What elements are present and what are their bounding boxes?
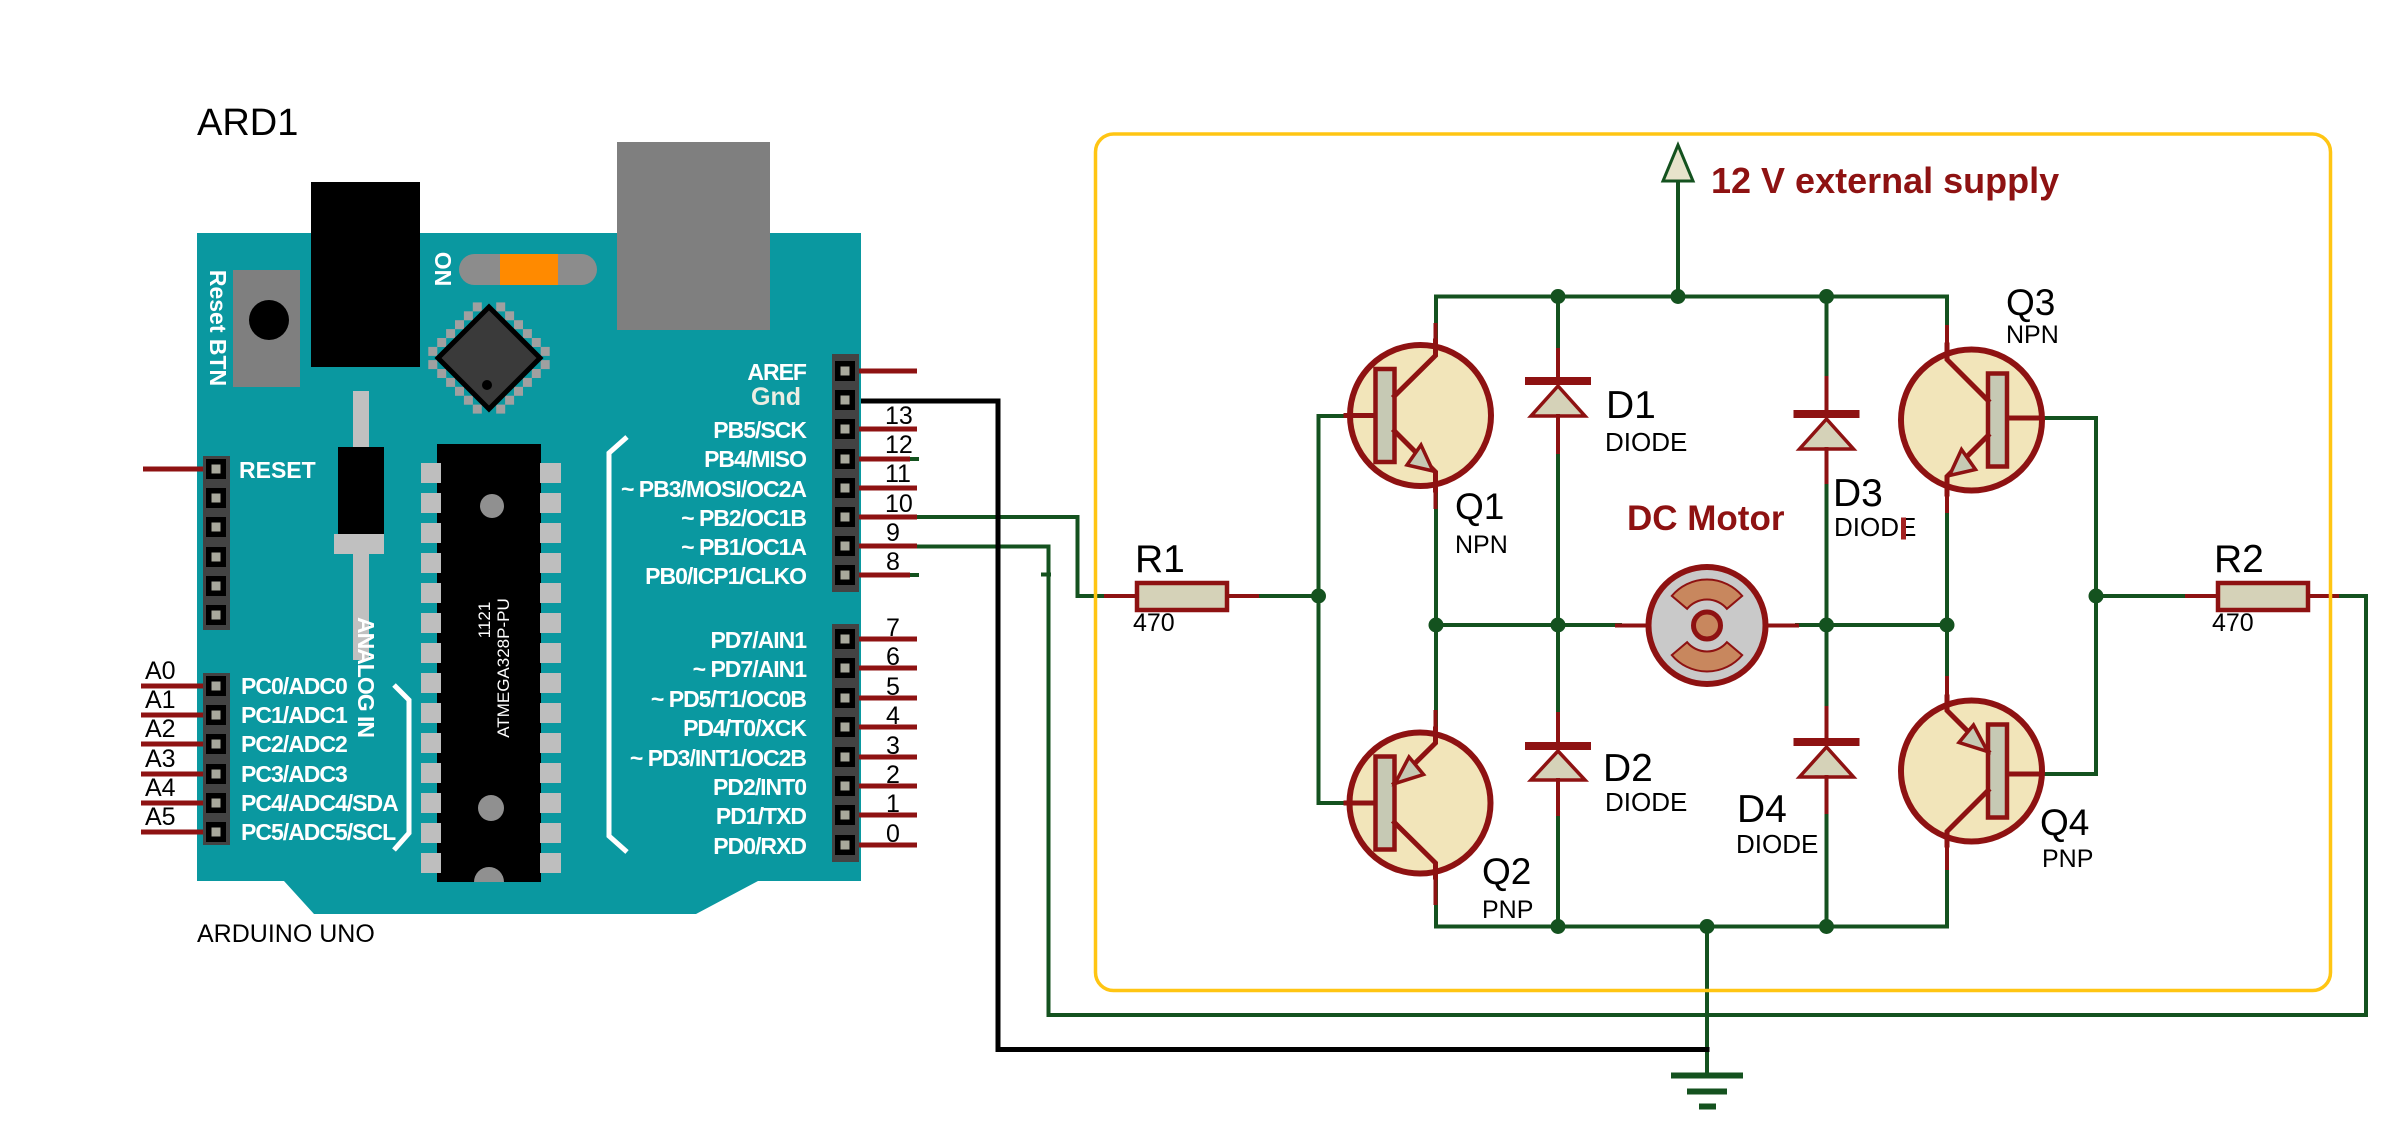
right pin name labels: [621, 359, 807, 859]
wire: D2 column: [1556, 625, 1560, 716]
svg-text:8: 8: [886, 548, 900, 576]
svg-text:0: 0: [886, 820, 900, 848]
resistor R1: [1106, 538, 1257, 637]
digital pin numbers: [885, 402, 913, 848]
RESET pin stub: [143, 467, 203, 472]
svg-text:13: 13: [885, 402, 913, 430]
USB connector: [617, 142, 770, 330]
wire: Q2 emitter to bottom row: [1436, 842, 1947, 927]
power LED: [459, 254, 597, 285]
diode D2: [1529, 714, 1687, 817]
svg-text:~ PD7/AIN1: ~ PD7/AIN1: [693, 656, 808, 682]
diode D4: [1736, 708, 1856, 859]
transistor Q4 PNP: [1901, 678, 2093, 873]
wire: node row to Q2 collector: [1434, 625, 1438, 730]
svg-text:10: 10: [885, 490, 913, 518]
svg-text:Q1: Q1: [1455, 486, 1504, 527]
svg-text:D2: D2: [1603, 747, 1653, 790]
node labels A0-A5: [145, 657, 176, 831]
svg-text:Reset BTN: Reset BTN: [205, 270, 231, 386]
svg-text:PC3/ADC3: PC3/ADC3: [241, 761, 347, 787]
svg-text:5: 5: [886, 673, 900, 701]
svg-text:A3: A3: [145, 745, 176, 773]
svg-text:PD4/T0/XCK: PD4/T0/XCK: [683, 715, 807, 741]
svg-text:~ PD5/T1/OC0B: ~ PD5/T1/OC0B: [651, 686, 806, 712]
DC motor: [1617, 499, 1797, 684]
svg-text:RESET: RESET: [239, 457, 316, 483]
wire: Q3 emitter to node row: [1945, 493, 1949, 625]
digital pin stubs: [859, 371, 917, 845]
svg-text:Q4: Q4: [2040, 802, 2089, 843]
svg-text:ATMEGA328P-PU: ATMEGA328P-PU: [494, 598, 513, 738]
svg-text:ARD1: ARD1: [197, 102, 298, 144]
svg-text:Q2: Q2: [1482, 851, 1531, 892]
svg-text:Gnd: Gnd: [751, 383, 801, 411]
svg-text:~ PB3/MOSI/OC2A: ~ PB3/MOSI/OC2A: [621, 476, 806, 502]
analog pin stubs A0-A5: [141, 686, 203, 832]
svg-text:PC0/ADC0: PC0/ADC0: [241, 673, 347, 699]
svg-text:PD2/INT0: PD2/INT0: [713, 774, 806, 800]
svg-text:ARDUINO UNO: ARDUINO UNO: [197, 920, 375, 948]
svg-text:A5: A5: [145, 803, 176, 831]
svg-text:D3: D3: [1833, 472, 1883, 515]
wire: D4 column: [1825, 625, 1829, 710]
svg-text:PNP: PNP: [1482, 896, 1533, 924]
power jack: [311, 182, 420, 367]
svg-text:A4: A4: [145, 774, 176, 802]
svg-text:PC1/ADC1: PC1/ADC1: [241, 702, 348, 728]
wire: top supply bus: [1436, 297, 1947, 348]
transistor Q2 PNP: [1346, 712, 1533, 924]
svg-text:PC5/ADC5/SCL: PC5/ADC5/SCL: [241, 819, 396, 845]
wire: Q4 base to R2 node: [2040, 596, 2096, 774]
ground symbol: [1674, 1076, 1740, 1107]
svg-text:D1: D1: [1606, 384, 1656, 427]
labels PC0-PC5: [241, 673, 398, 845]
svg-text:Q3: Q3: [2006, 282, 2055, 323]
digital header AREF-8: [832, 354, 859, 592]
svg-text:DC Motor: DC Motor: [1627, 499, 1785, 538]
svg-text:470: 470: [1133, 609, 1175, 637]
svg-text:PD7/AIN1: PD7/AIN1: [710, 627, 807, 653]
DIP chip ATMEGA328P: [421, 444, 561, 882]
diode D1: [1529, 350, 1687, 457]
svg-text:NPN: NPN: [2006, 321, 2059, 349]
svg-text:PD1/TXD: PD1/TXD: [716, 803, 807, 829]
green wire remnant ticks: [910, 457, 919, 461]
svg-text:AREF: AREF: [747, 359, 807, 385]
white bracket analog group: [394, 685, 409, 850]
white bracket PB/PD group: [609, 437, 627, 852]
wire: base rail Q1-Q2: [1319, 416, 1356, 803]
wire: ground drop: [1705, 927, 1709, 1074]
svg-text:11: 11: [885, 460, 911, 488]
wire: Q3 base to R2 node: [2040, 418, 2190, 596]
wire: D3 column: [1825, 297, 1829, 381]
svg-text:9: 9: [886, 519, 900, 547]
svg-text:2: 2: [886, 761, 900, 789]
svg-text:NPN: NPN: [1455, 531, 1508, 559]
svg-text:~ PB1/OC1A: ~ PB1/OC1A: [681, 534, 806, 560]
board outline: [197, 233, 861, 914]
wire: pin9 long wire to R2: [917, 547, 2366, 1016]
yellow highlight frame: [1096, 134, 2331, 991]
svg-text:DIODE: DIODE: [1736, 829, 1818, 859]
svg-text:3: 3: [886, 732, 900, 760]
diode D3: [1798, 378, 1917, 542]
power flag 12V: [1663, 145, 1693, 297]
wire: motor right to Q3Q4 rail: [1797, 623, 1947, 627]
svg-text:PC2/ADC2: PC2/ADC2: [241, 731, 347, 757]
svg-text:12 V external supply: 12 V external supply: [1711, 160, 2059, 201]
svg-text:7: 7: [886, 614, 900, 642]
resistor R2: [2187, 538, 2337, 637]
wire: black ground wire from Arduino: [858, 401, 1707, 1050]
wire: node row to Q4 collector: [1945, 625, 1949, 698]
svg-text:~ PD3/INT1/OC2B: ~ PD3/INT1/OC2B: [630, 745, 806, 771]
transistor Q3 NPN: [1901, 282, 2059, 511]
wire: R1 to bases node: [1251, 594, 1319, 598]
svg-text:PB4/MISO: PB4/MISO: [704, 446, 806, 472]
wire: Q1 emitter to node row: [1434, 489, 1438, 625]
svg-text:12: 12: [885, 431, 913, 459]
analog header A0-A5: [203, 673, 230, 845]
reset button: [233, 270, 300, 387]
svg-text:A0: A0: [145, 657, 176, 685]
svg-text:~ PB2/OC1B: ~ PB2/OC1B: [681, 505, 806, 531]
svg-text:DIODE: DIODE: [1605, 787, 1687, 817]
svg-text:PC4/ADC4/SDA: PC4/ADC4/SDA: [241, 790, 398, 816]
svg-text:D4: D4: [1737, 788, 1787, 831]
transistor Q1 NPN: [1346, 325, 1508, 559]
svg-text:PB0/ICP1/CLKO: PB0/ICP1/CLKO: [645, 563, 806, 589]
RESET header: [203, 456, 230, 630]
svg-text:PNP: PNP: [2042, 845, 2093, 873]
svg-text:1: 1: [886, 790, 900, 818]
svg-text:PD0/RXD: PD0/RXD: [713, 833, 806, 859]
svg-text:A2: A2: [145, 715, 176, 743]
svg-text:470: 470: [2212, 609, 2254, 637]
QFP chip: [428, 302, 549, 413]
svg-text:ANALOG IN: ANALOG IN: [353, 617, 379, 737]
svg-text:PB5/SCK: PB5/SCK: [713, 417, 807, 443]
svg-text:A1: A1: [145, 686, 176, 714]
svg-text:R1: R1: [1135, 538, 1185, 581]
svg-text:ON: ON: [430, 252, 456, 287]
wire: pin10 to R1: [917, 517, 1108, 596]
svg-text:1121: 1121: [475, 602, 494, 639]
crystal capacitor: [334, 391, 384, 660]
digital header 7-0: [832, 624, 859, 862]
wire stub remnant near pin9 corner: [1043, 573, 1049, 577]
svg-text:6: 6: [886, 643, 900, 671]
svg-text:DIODE: DIODE: [1605, 427, 1687, 457]
wire: left node row to motor: [1436, 623, 1620, 627]
junction dots: [1311, 289, 2104, 934]
svg-text:R2: R2: [2214, 538, 2264, 581]
wire: D1 column: [1556, 297, 1560, 353]
svg-text:4: 4: [886, 702, 900, 730]
